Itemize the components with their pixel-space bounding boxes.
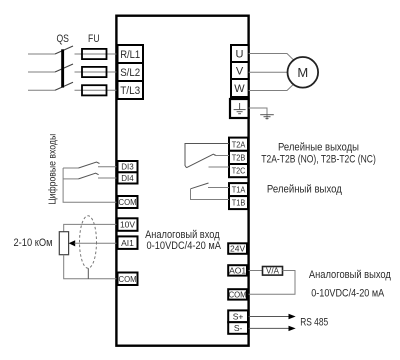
terminal 10V — [118, 218, 138, 231]
wire T2B stub — [215, 155, 230, 157]
svg-text:Релейные выходы: Релейные выходы — [278, 141, 359, 153]
svg-text:T1B: T1B — [232, 198, 246, 208]
svg-text:COM: COM — [119, 197, 137, 207]
wire L3 input — [28, 89, 55, 91]
terminal S+ — [228, 310, 248, 322]
terminal T2B — [229, 151, 248, 164]
svg-text:R/L1: R/L1 — [120, 49, 140, 61]
svg-text:S/L2: S/L2 — [120, 67, 140, 79]
svg-text:10V: 10V — [120, 220, 135, 230]
shield drain wire — [87, 268, 89, 279]
svg-text:0-10VDC/4-20 мА: 0-10VDC/4-20 мА — [147, 240, 222, 252]
svg-text:Релейный выход: Релейный выход — [267, 183, 343, 195]
terminal S- — [228, 322, 248, 334]
svg-text:W: W — [234, 83, 245, 95]
drive enclosure rectangle — [116, 16, 248, 346]
terminal COM analog — [118, 273, 138, 286]
relay T2 common wire and bracket — [185, 144, 229, 168]
wire PE to external ground — [249, 108, 267, 120]
terminal R/L1 — [118, 45, 144, 63]
svg-text:DI3: DI3 — [121, 162, 134, 172]
wire potentiometer bottom to COM — [64, 255, 117, 279]
terminal DI4 — [118, 172, 138, 183]
svg-text:COM: COM — [119, 274, 137, 284]
external ground symbol — [260, 115, 274, 119]
terminal AI1 — [118, 236, 138, 249]
terminal T/L3 — [118, 81, 144, 99]
terminal T1B — [229, 196, 248, 209]
terminal T1A — [229, 183, 248, 196]
terminal 24V — [228, 243, 247, 254]
fuse FU2 — [82, 67, 107, 77]
svg-text:T2A-T2B (NO), T2B-T2C (NC): T2A-T2B (NO), T2B-T2C (NC) — [261, 153, 376, 165]
digital common bus — [63, 168, 116, 202]
wire DI3 stub — [98, 166, 116, 168]
wire QS to FU pole 2 — [75, 71, 117, 73]
svg-text:V: V — [236, 66, 244, 78]
svg-text:0-10VDC/4-20 мА: 0-10VDC/4-20 мА — [311, 288, 385, 300]
svg-text:FU: FU — [88, 33, 100, 45]
terminal S/L2 — [118, 63, 144, 81]
wire DI4 stub — [98, 177, 116, 179]
terminal T2C — [229, 164, 248, 177]
svg-text:S+: S+ — [233, 311, 244, 321]
potentiometer body — [59, 232, 68, 255]
svg-text:AI1: AI1 — [121, 238, 134, 248]
svg-text:S-: S- — [234, 323, 243, 333]
terminal T2A — [229, 138, 248, 151]
relay T1 common bracket to T1B — [191, 189, 230, 200]
terminal U — [231, 45, 249, 62]
wire QS to FU pole 3 — [75, 89, 117, 91]
wire S- arrow — [249, 327, 289, 329]
svg-text:Цифровые входы: Цифровые входы — [46, 134, 58, 205]
svg-text:T2B: T2B — [232, 153, 246, 163]
meter V/A — [263, 267, 283, 276]
relay T1 blade — [191, 183, 209, 189]
switch DI4 blade — [79, 173, 99, 179]
svg-text:QS: QS — [56, 33, 69, 45]
wire U to motor — [249, 54, 294, 61]
terminal W — [231, 79, 249, 97]
switch DI3 stub — [63, 167, 78, 169]
wire QS to FU pole 1 — [75, 53, 117, 55]
switch DI4 stub — [63, 178, 78, 180]
fuse FU1 — [82, 49, 107, 59]
wire L2 input — [28, 71, 55, 73]
wire L1 input — [28, 53, 55, 55]
wire T2C stub — [209, 166, 230, 168]
svg-text:DI4: DI4 — [121, 173, 134, 183]
svg-text:T/L3: T/L3 — [120, 85, 140, 97]
svg-text:Аналоговый выход: Аналоговый выход — [309, 269, 391, 281]
fuse FU3 — [82, 85, 107, 95]
svg-text:24V: 24V — [230, 244, 245, 254]
terminal PE (ground box) — [230, 99, 249, 118]
motor M — [288, 57, 319, 88]
ground symbol inside PE box — [234, 103, 246, 114]
wire W to motor — [249, 84, 294, 91]
terminal AO1 — [228, 265, 247, 275]
svg-text:2-10 кОм: 2-10 кОм — [14, 237, 53, 249]
wire V/A loop to COM — [249, 271, 295, 295]
switch QS pole 2 blade — [55, 64, 73, 72]
shielded cable ellipse — [80, 216, 97, 268]
wire AO1 to V/A meter — [249, 270, 263, 272]
switch QS pole 1 blade — [55, 46, 73, 54]
svg-text:RS 485: RS 485 — [300, 316, 328, 328]
svg-text:T1A: T1A — [232, 185, 246, 195]
wire AI1 to wiper — [75, 242, 117, 244]
wire V to motor — [249, 71, 288, 73]
svg-text:V/A: V/A — [266, 267, 280, 276]
wire T1A stub — [208, 187, 229, 189]
wire S+ arrow — [249, 316, 289, 318]
relay T2 blade — [187, 154, 217, 168]
switch DI3 blade — [79, 162, 100, 168]
svg-text:AO1: AO1 — [229, 265, 246, 275]
svg-text:COM: COM — [229, 289, 247, 299]
svg-text:T2C: T2C — [232, 166, 246, 176]
terminal COM digital — [118, 196, 138, 208]
svg-text:T2A: T2A — [232, 139, 246, 149]
switch QS pole 3 blade — [55, 82, 73, 90]
potentiometer wiper arrow — [69, 240, 76, 246]
svg-text:U: U — [236, 49, 244, 61]
wire 10V to potentiometer top — [64, 224, 117, 231]
terminal V — [231, 62, 249, 79]
terminal DI3 — [118, 161, 138, 172]
terminal COM output — [228, 289, 247, 299]
svg-text:M: M — [297, 65, 308, 80]
switch QS gang bar — [61, 49, 64, 87]
